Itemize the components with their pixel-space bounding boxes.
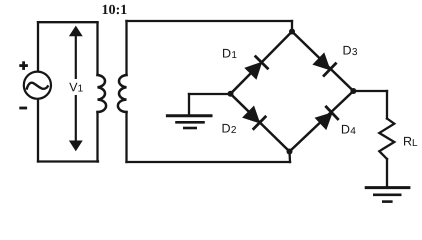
node bottom <box>287 149 293 155</box>
wire bridge arm D4 <box>290 91 354 152</box>
diode D2 <box>242 105 267 130</box>
source V1 circle <box>24 72 51 99</box>
wire primary left lower <box>37 99 39 162</box>
wire bridge arm D2 <box>231 94 290 152</box>
wire primary right upper <box>96 22 98 75</box>
ground 1 <box>166 116 213 128</box>
wire stub bottom node <box>288 152 291 163</box>
V1 measurement arrow <box>70 27 82 151</box>
label D1 <box>223 49 236 58</box>
wire primary left upper <box>37 22 39 71</box>
plus sign <box>19 61 28 70</box>
wire bridge arm D3 <box>292 32 353 92</box>
wire left node to ground <box>189 93 231 95</box>
wire secondary left upper <box>125 21 127 75</box>
wire load top lead <box>386 91 388 119</box>
wire primary right lower <box>96 112 98 162</box>
node right <box>350 88 356 94</box>
diode D3 <box>312 52 337 77</box>
wire primary bottom <box>38 160 98 162</box>
minus sign <box>19 107 27 110</box>
node left <box>228 91 234 97</box>
wire secondary bottom to bridge <box>127 161 291 163</box>
diode D4 <box>314 106 339 131</box>
wire stub top node <box>291 21 293 32</box>
label D2 <box>223 124 236 133</box>
label V1 <box>68 80 85 93</box>
wire secondary left lower <box>125 112 127 162</box>
transformer primary coil <box>98 75 107 112</box>
label D4 <box>342 125 356 134</box>
wire right node to load <box>353 90 387 92</box>
resistor RL zigzag <box>379 119 394 160</box>
wire ground 1 stem <box>188 94 190 116</box>
label RL <box>404 137 417 146</box>
label 10:1 <box>103 5 127 15</box>
transformer secondary coil <box>118 75 127 112</box>
ground 2 <box>365 188 411 202</box>
source sine wave <box>27 83 48 89</box>
wire load bottom lead <box>386 159 388 186</box>
node top <box>289 29 295 35</box>
diode D1 <box>244 56 269 81</box>
label D3 <box>344 46 357 55</box>
wire bridge arm D1 <box>231 32 293 94</box>
wire primary top <box>38 21 98 23</box>
wire secondary top to bridge <box>127 20 293 22</box>
